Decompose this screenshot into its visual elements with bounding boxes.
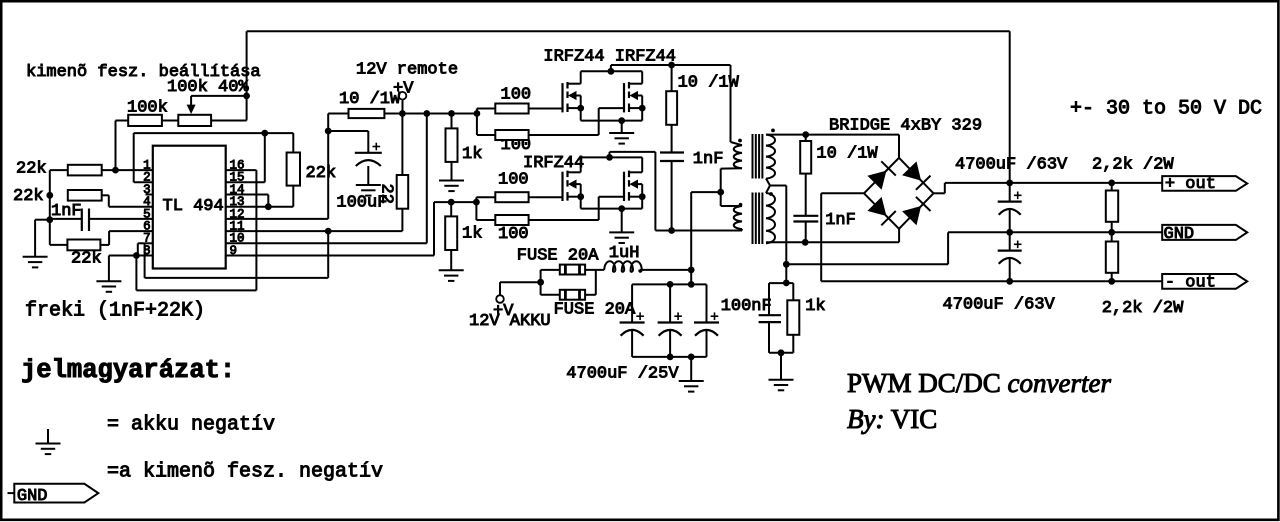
resistor R15 10/1W (800, 135, 811, 216)
ground G5 (439, 270, 464, 281)
svg-text:10 /1W: 10 /1W (816, 145, 878, 164)
wire pin3 stub (146, 194, 153, 196)
wire secondary top rail (766, 134, 899, 136)
ground G9 (769, 353, 794, 391)
wire pin11 to pin7 line (145, 231, 329, 278)
label 1k R11 (462, 225, 482, 244)
junction pin15 link (261, 130, 268, 137)
label IRFZ44 IRFZ44 (543, 48, 676, 67)
ground G8 (679, 357, 704, 392)
svg-text:1uH: 1uH (609, 244, 640, 263)
svg-text:22k: 22k (13, 187, 44, 206)
capacitor C4 1nF (793, 216, 818, 243)
svg-text:- out: - out (1165, 274, 1216, 293)
label 4700uF /63V bottom (943, 296, 1056, 315)
wire lower drain rail (581, 152, 656, 231)
pin numbers 16-9 (230, 159, 245, 258)
label 4700uF /63V top (955, 156, 1068, 175)
node GND tag (1162, 225, 1247, 244)
svg-text:=a kimenõ fesz. negatív: =a kimenõ fesz. negatív (107, 461, 383, 484)
wire drain to primary (672, 65, 731, 142)
ground G7 (609, 232, 634, 243)
wire secondary bottom rail (766, 229, 899, 243)
label 22k R2 (16, 160, 47, 179)
wire bridge top stem (898, 135, 900, 158)
label 12V AKKU (469, 312, 551, 331)
wire pin14 pin13 (226, 195, 269, 207)
svg-text:1k: 1k (805, 297, 825, 316)
label +- 30 to 50 V DC (1070, 98, 1262, 121)
resistor R11 1k (445, 202, 457, 270)
wire fuse loop (541, 270, 605, 295)
fuse F1 20A (560, 265, 585, 275)
label kimeno fesz. beallitasa (26, 63, 261, 82)
svg-text:FUSE 20A: FUSE 20A (554, 301, 636, 320)
label 22k R3 (13, 187, 44, 206)
transformer T1 primary top (721, 142, 742, 169)
wire coil to tap (640, 269, 692, 271)
capacitor C7 4700uF (694, 284, 719, 357)
diode D4 bridge (899, 193, 934, 229)
capacitor C6 4700uF (658, 284, 683, 357)
svg-text:22k: 22k (71, 250, 102, 269)
wire pin12 vcc (226, 114, 329, 219)
label +V remote (393, 80, 414, 99)
transformer T1 primary bottom (721, 206, 742, 231)
svg-text:10 /1W: 10 /1W (339, 90, 401, 109)
wire pin7 (138, 243, 153, 255)
wire plus out rail (945, 182, 1162, 184)
junction rc ground (778, 349, 785, 356)
diode D3 bridge (864, 193, 899, 229)
label 100 Rc (498, 170, 529, 189)
title By VIC (847, 404, 937, 434)
label 4700uF /25V (566, 365, 679, 384)
resistor R13 100 (476, 197, 624, 225)
label 10 /1W R14 (678, 74, 740, 93)
wire minus out rail (821, 280, 1162, 282)
label 10 /1W R15 (816, 145, 878, 164)
label 100uF (336, 194, 387, 213)
junction 1k upper (448, 110, 455, 117)
wire gnd rail (786, 232, 1162, 264)
legend kimeno negativ (107, 461, 383, 484)
wire pin8 ground (109, 256, 153, 282)
label 100k (127, 99, 168, 118)
junction +V node (399, 110, 406, 117)
wire pin1 to 100k (115, 121, 117, 171)
svg-text:1k: 1k (462, 145, 482, 164)
wire primary bottom line (655, 230, 742, 232)
resistor R4 22k (50, 231, 153, 250)
wire center tap (720, 169, 722, 206)
wire pin10 (226, 114, 427, 244)
legend title (21, 356, 235, 385)
svg-text:+- 30 to 50 V DC: +- 30 to 50 V DC (1070, 98, 1262, 121)
svg-text:IRFZ44: IRFZ44 (523, 154, 584, 173)
label +V akku (493, 302, 514, 321)
label 2,2k /2W bottom (1102, 299, 1184, 318)
label 100nF C8 (721, 297, 772, 316)
resistor R2 22k (50, 165, 153, 176)
terminal +V akku (496, 282, 540, 303)
legend ground symbol (36, 429, 61, 454)
svg-text:22k: 22k (16, 160, 47, 179)
svg-text:FUSE 20A: FUSE 20A (517, 247, 599, 266)
wire lower gate line (434, 201, 476, 203)
svg-text:10 /1W: 10 /1W (678, 74, 740, 93)
resistor R1 100k (116, 115, 179, 126)
junction snubber bottom (668, 227, 675, 234)
label 1k R16 (805, 297, 825, 316)
title PWM DC/DC converter (847, 368, 1111, 398)
label 100 Ra (501, 86, 532, 105)
svg-text:4700uF /25V: 4700uF /25V (566, 365, 679, 384)
svg-text:TL 494: TL 494 (163, 197, 224, 216)
svg-text:By: VIC: By: VIC (847, 404, 937, 434)
wire pin9 (226, 202, 434, 255)
wire upper drain rail (581, 65, 672, 71)
label 1k R8 (462, 145, 482, 164)
ground G6 (609, 133, 634, 144)
phase dot secondary bottom (769, 192, 773, 196)
node - out tag (1162, 274, 1247, 293)
transformer T1 secondary bottom (766, 193, 775, 243)
junction upper drain (608, 68, 615, 75)
svg-text:100nF: 100nF (721, 297, 772, 316)
pin numbers 1-8 (143, 159, 151, 258)
junction bank top B (688, 281, 695, 288)
junction primary center tap (717, 189, 724, 196)
wire ground link (35, 219, 50, 221)
phase dot secondary top (771, 129, 775, 133)
fuse F2 20A (560, 290, 585, 300)
svg-text:12V AKKU: 12V AKKU (469, 312, 551, 331)
capacitor C2 100uF (328, 131, 382, 185)
svg-text:BRIDGE 4xBY 329: BRIDGE 4xBY 329 (829, 117, 982, 136)
junction out B (1108, 180, 1115, 187)
svg-text:22k: 22k (306, 164, 337, 183)
junction pin11 (325, 228, 332, 235)
capacitor C3 1nF (660, 153, 684, 231)
wire left vertical bus (49, 170, 51, 245)
wire lower sources (581, 197, 643, 233)
label FUSE 20A upper (517, 247, 599, 266)
wire bridge plus out (934, 183, 945, 193)
potentiometer P1 100k 40% (178, 96, 246, 126)
junction fuse left (537, 279, 544, 286)
wire top feedback rail (247, 31, 1010, 183)
node GND tag legend (8, 484, 99, 506)
wire upper sources (581, 108, 643, 133)
wire pin11 (226, 230, 403, 232)
resistor R14 10/1W (666, 65, 677, 153)
junction out A (1006, 180, 1013, 187)
resistor R5 22k (268, 133, 300, 207)
svg-text:2,2k /2W: 2,2k /2W (1092, 156, 1174, 175)
svg-text:4700uF /63V: 4700uF /63V (955, 156, 1068, 175)
junction 100 split upper (474, 110, 481, 117)
junction 22k bus A (46, 192, 53, 199)
label 22k R4 (71, 250, 102, 269)
label 100k 40% (167, 78, 249, 97)
capacitor C9 4700uF 63V (998, 183, 1022, 232)
label 100 Rb (501, 136, 532, 155)
ground G1 (23, 220, 48, 268)
wire tap feed (691, 192, 721, 270)
svg-text:22: 22 (377, 184, 396, 204)
wire secondary tap down (770, 186, 786, 284)
wire pin2 top link (134, 133, 294, 182)
transformer T1 secondary top (766, 135, 775, 193)
label TL 494 (163, 197, 224, 216)
capacitor C5 4700uF (620, 284, 645, 357)
junction coil node (688, 267, 695, 274)
svg-text:IRFZ44 IRFZ44: IRFZ44 IRFZ44 (543, 48, 676, 67)
resistor R12 100 (476, 192, 562, 202)
svg-text:100k 40%: 100k 40% (167, 78, 249, 97)
svg-text:GND: GND (17, 487, 48, 506)
junction bank top A (667, 281, 674, 288)
junction lower drain (606, 154, 613, 161)
junction sec tap A (783, 261, 790, 268)
junction pot feedback (243, 93, 250, 100)
junction 22k bus B (46, 216, 53, 223)
wire bank rails (632, 284, 706, 357)
transformer core (753, 134, 763, 244)
svg-text:100: 100 (501, 86, 532, 105)
label 12V remote (356, 61, 458, 80)
label 1uH (609, 244, 640, 263)
diode D1 bridge (864, 158, 899, 194)
junction snubber2 top (802, 131, 809, 138)
transistor Q2 IRFZ44 (624, 71, 646, 112)
wire pin15 up (226, 133, 265, 182)
junction out D (1108, 229, 1115, 236)
resistor R8 1k (446, 114, 458, 181)
label 2,2k /2W top (1092, 156, 1174, 175)
resistor R3 22k (68, 190, 153, 207)
svg-text:+ out: + out (1165, 175, 1216, 194)
junction pin10 gate (423, 110, 430, 117)
junction 100 split lower (473, 199, 480, 206)
phase dot primary bottom (739, 203, 743, 207)
label 10 /1W R6 (339, 90, 401, 109)
label 22 R7 (377, 184, 396, 204)
ground G3 (356, 185, 381, 196)
junction node pin1 (112, 167, 119, 174)
label 100 Rd (498, 225, 529, 244)
resistor R9 100 (477, 104, 563, 114)
node + out tag (1162, 175, 1247, 194)
junction bank bottom A (667, 354, 674, 361)
resistor R16 1k (787, 283, 799, 353)
svg-text:jelmagyarázat:: jelmagyarázat: (21, 356, 235, 385)
wire upper gate line (402, 113, 477, 115)
terminal +V remote (399, 92, 407, 114)
svg-text:freki (1nF+22K): freki (1nF+22K) (25, 300, 205, 323)
capacitor C10 4700uF 63V (998, 232, 1022, 281)
junction upper source (618, 117, 625, 124)
resistor R6 10/1W (328, 109, 402, 118)
resistor R18 2,2k (1106, 232, 1118, 281)
inductor L1 1uH (604, 261, 642, 272)
label 1nF C1 (51, 202, 82, 221)
junction snubber2 bottom (802, 239, 809, 246)
svg-text:1k: 1k (462, 225, 482, 244)
label FUSE 20A lower (554, 301, 636, 320)
junction out C (1006, 229, 1013, 236)
label 1nF C4 (825, 211, 856, 230)
svg-text:GND: GND (1164, 225, 1195, 244)
capacitor C8 100nF (759, 283, 794, 353)
svg-text:1nF: 1nF (693, 150, 724, 169)
ground G2 (96, 281, 121, 292)
wire pin8 to pin16 loop (136, 170, 256, 290)
svg-text:4700uF /63V: 4700uF /63V (943, 296, 1056, 315)
diode D2 bridge (899, 158, 934, 194)
phase dot primary top (738, 139, 742, 143)
junction sec tap B (783, 280, 790, 287)
transistor Q1 IRFZ44 (563, 71, 585, 112)
svg-text:12V remote: 12V remote (356, 61, 458, 80)
svg-text:2,2k /2W: 2,2k /2W (1102, 299, 1184, 318)
label IRFZ44 lower (523, 154, 584, 173)
junction pin13 (265, 203, 272, 210)
transistor Q4 IRFZ44 (624, 157, 646, 201)
wire rc bottom bar (769, 352, 793, 354)
junction 1k lower (448, 199, 455, 206)
svg-text:PWM DC/DC converter: PWM DC/DC converter (847, 368, 1111, 398)
svg-text:= akku negatív: = akku negatív (107, 414, 275, 437)
resistor R17 2,2k (1106, 183, 1118, 232)
legend akku negativ (107, 414, 275, 437)
junction drain node (668, 62, 675, 69)
svg-text:100: 100 (498, 225, 529, 244)
wire coil to bank (690, 270, 692, 285)
svg-text:1nF: 1nF (825, 211, 856, 230)
junction lower source (618, 205, 625, 212)
junction bank bottom B (688, 354, 695, 361)
resistor R10 100 (477, 108, 624, 140)
op-amp U1 TL494 body (153, 146, 226, 269)
transistor Q3 IRFZ44 (563, 157, 585, 201)
label BRIDGE 4xBY 329 (829, 117, 982, 136)
label 22k R5 (306, 164, 337, 183)
ground G4 (439, 181, 464, 192)
wire bridge minus out (821, 193, 864, 281)
junction vcc filter (325, 128, 332, 135)
capacitor C1 1nF (50, 209, 153, 232)
label 1nF C3 (693, 150, 724, 169)
wire pin16 (226, 169, 257, 171)
junction out E (1006, 278, 1013, 285)
junction pin8 (133, 252, 140, 259)
svg-text:100: 100 (498, 170, 529, 189)
label freki (25, 300, 205, 323)
junction out F (1108, 278, 1115, 285)
resistor R7 22 (397, 114, 409, 232)
